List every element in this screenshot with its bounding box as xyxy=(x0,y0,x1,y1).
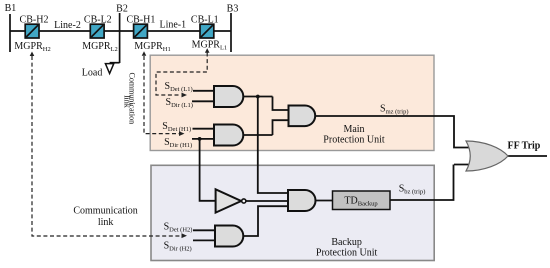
svg-text:CB-L2: CB-L2 xyxy=(84,14,112,25)
svg-text:B1: B1 xyxy=(5,3,17,14)
svg-text:Communication: Communication xyxy=(73,206,137,217)
svg-text:Line-2: Line-2 xyxy=(54,20,81,31)
svg-text:CB-L1: CB-L1 xyxy=(191,14,219,25)
svg-text:Protection Unit: Protection Unit xyxy=(323,135,385,146)
svg-text:FF Trip: FF Trip xyxy=(508,141,541,152)
svg-text:link: link xyxy=(123,95,132,107)
svg-text:CB-H2: CB-H2 xyxy=(20,14,49,25)
svg-text:B3: B3 xyxy=(227,4,239,15)
svg-text:link: link xyxy=(98,217,114,228)
svg-text:Load: Load xyxy=(82,68,103,79)
svg-text:Main: Main xyxy=(343,124,364,135)
svg-text:Protection Unit: Protection Unit xyxy=(316,248,378,259)
svg-text:Backup: Backup xyxy=(331,237,362,248)
svg-text:B2: B2 xyxy=(116,4,128,15)
svg-text:Line-1: Line-1 xyxy=(159,19,186,30)
svg-text:CB-H1: CB-H1 xyxy=(126,14,155,25)
